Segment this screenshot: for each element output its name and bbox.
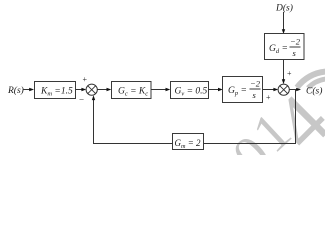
svg-text:−2: −2: [250, 79, 261, 89]
wire sum2 to C(s): [289, 89, 296, 91]
svg-text:R(s): R(s): [7, 85, 24, 96]
summing junction S2: [278, 84, 289, 95]
svg-text:−: −: [79, 95, 84, 105]
block Gp=-2/s: [223, 77, 263, 103]
svg-text:Km =1.5: Km =1.5: [40, 87, 73, 98]
wire takeoff down from output: [295, 90, 297, 144]
svg-text:Gv = 0.5: Gv = 0.5: [175, 87, 208, 98]
svg-text:+: +: [83, 75, 88, 84]
wire sum1 to Gc: [97, 89, 106, 91]
svg-text:Gp =: Gp =: [228, 86, 247, 97]
svg-text:+: +: [287, 69, 292, 78]
block Gc=Kc: [112, 82, 152, 99]
wire Gd to sum2: [283, 60, 285, 80]
summing junction S1: [86, 84, 97, 95]
svg-text:−2: −2: [290, 37, 301, 47]
wire riser up to sum1: [93, 100, 95, 145]
block Gv=0.5: [171, 82, 209, 99]
block Km=1.5: [35, 82, 76, 99]
wire D(s) to Gd: [283, 12, 285, 30]
wire Gv to Gp: [209, 89, 219, 91]
svg-text:Gd =: Gd =: [269, 44, 288, 55]
watermark stamp arcs: [297, 72, 325, 89]
wire Km to sum1: [76, 89, 82, 91]
wire Gc to Gv: [151, 89, 166, 91]
wire Gp to sum2: [263, 89, 274, 91]
svg-text:Gc = Kc: Gc = Kc: [118, 87, 148, 98]
block Gm=2: [173, 134, 204, 151]
wire R(s) to Km: [23, 89, 30, 91]
wire bottom right to Gm: [204, 143, 297, 145]
svg-text:+: +: [266, 93, 271, 102]
svg-text:C(s): C(s): [306, 86, 322, 97]
block Gd=-2/s: [265, 34, 305, 60]
watermark 2014: [221, 77, 325, 186]
wire Gm to left riser: [94, 143, 173, 145]
